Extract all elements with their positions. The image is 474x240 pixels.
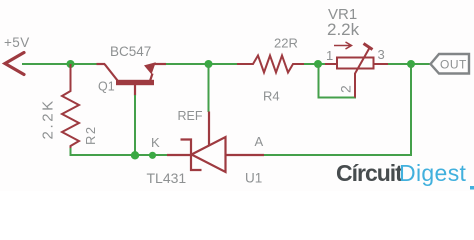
node junction base/bottom bbox=[131, 151, 139, 159]
wire bottom net R2 to K bbox=[71, 148, 169, 155]
svg-text:22R: 22R bbox=[274, 36, 298, 51]
resistor R4 bbox=[237, 56, 305, 73]
wire +5V rail to Q1 collector bbox=[22, 63, 97, 65]
svg-text:3: 3 bbox=[378, 47, 385, 62]
svg-text:U1: U1 bbox=[245, 171, 262, 186]
svg-text:+5V: +5V bbox=[4, 35, 30, 50]
transistor Q1 bbox=[97, 62, 167, 95]
svg-text:2: 2 bbox=[338, 85, 354, 93]
svg-text:R2: R2 bbox=[83, 125, 98, 145]
wire anode net bbox=[263, 64, 411, 155]
supply +5V arrow bbox=[5, 53, 24, 75]
resistor R2 bbox=[62, 64, 79, 155]
wire Q1 emitter to R4 bbox=[166, 63, 238, 65]
wire R4 to VR1 bbox=[304, 63, 326, 65]
svg-text:K: K bbox=[151, 135, 160, 150]
svg-text:A: A bbox=[255, 134, 264, 149]
wire wiper loop bbox=[319, 64, 357, 98]
svg-text:Q1: Q1 bbox=[98, 80, 115, 94]
svg-text:BC547: BC547 bbox=[110, 44, 151, 59]
node junction rail/wiper loop bbox=[314, 60, 322, 68]
svg-text:Digest: Digest bbox=[399, 160, 467, 186]
IC TL431 U1 bbox=[167, 112, 264, 173]
logo dot bbox=[470, 186, 474, 190]
wire VR1 to OUT bbox=[388, 63, 430, 65]
logo CircuitDigest bbox=[336, 160, 467, 186]
node junction rail/REF bbox=[205, 60, 213, 68]
node junction rail/anode bbox=[407, 60, 415, 68]
node junction rail/R2 bbox=[67, 60, 75, 68]
potentiometer VR1 bbox=[325, 42, 388, 98]
svg-text:1: 1 bbox=[326, 48, 333, 63]
node pin K junction bbox=[149, 152, 156, 159]
svg-text:2.2K: 2.2K bbox=[40, 98, 57, 139]
svg-text:REF: REF bbox=[178, 109, 203, 123]
svg-text:OUT: OUT bbox=[440, 58, 467, 72]
svg-text:R4: R4 bbox=[263, 89, 280, 104]
svg-text:2.2k: 2.2k bbox=[327, 20, 360, 39]
wire base net bbox=[134, 95, 136, 155]
svg-text:TL431: TL431 bbox=[147, 170, 187, 186]
svg-text:Círcuit: Círcuit bbox=[336, 160, 403, 186]
terminal OUT flag bbox=[431, 54, 470, 74]
wire REF net bbox=[208, 64, 210, 112]
